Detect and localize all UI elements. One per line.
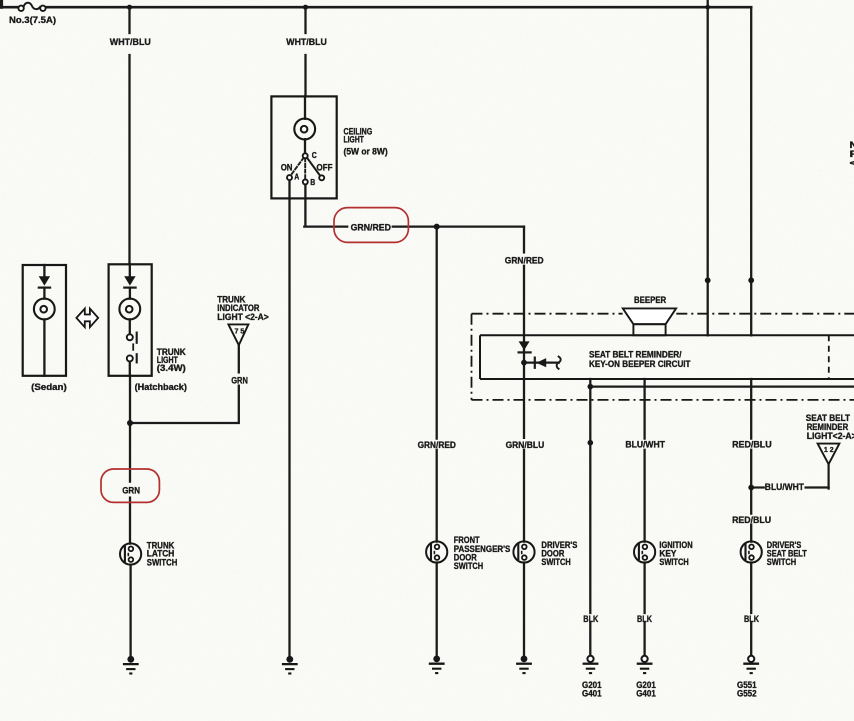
svg-text:(3.4W): (3.4W) [157,363,186,373]
svg-text:7 5: 7 5 [235,327,245,336]
svg-text:BLU/WHT: BLU/WHT [625,440,665,450]
svg-text:LIGHT <2-A>: LIGHT <2-A> [217,312,268,322]
svg-text:WHT/BLU: WHT/BLU [110,37,151,47]
svg-text:BLU/WHT: BLU/WHT [765,482,804,492]
svg-text:BLK: BLK [744,614,759,624]
svg-text:LIGHT: LIGHT [344,135,365,145]
svg-text:(5W or 8W): (5W or 8W) [344,147,388,157]
svg-text:G552: G552 [737,689,757,699]
svg-text:GRN/RED: GRN/RED [505,256,544,266]
svg-text:B: B [310,178,315,187]
svg-text:BLK: BLK [637,614,652,624]
svg-text:LIGHT<2-A>: LIGHT<2-A> [807,431,854,441]
svg-text:SWITCH: SWITCH [541,557,570,567]
svg-text:A: A [294,173,299,182]
svg-text:No.3(7.5A): No.3(7.5A) [9,15,56,25]
svg-text:GRN: GRN [122,485,140,495]
svg-text:BLK: BLK [583,614,598,624]
svg-text:SWITCH: SWITCH [454,561,483,571]
svg-text:RED/BLU: RED/BLU [732,515,771,525]
svg-text:<: < [850,158,854,168]
svg-text:1 2: 1 2 [824,445,834,454]
svg-text:OFF: OFF [317,163,334,173]
svg-text:BEEPER: BEEPER [634,295,667,305]
svg-text:(Sedan): (Sedan) [31,382,67,392]
svg-text:KEY-ON BEEPER CIRCUIT: KEY-ON BEEPER CIRCUIT [589,359,691,369]
svg-text:GRN/BLU: GRN/BLU [506,440,545,450]
svg-text:GRN: GRN [231,375,248,385]
svg-text:SWITCH: SWITCH [659,557,688,567]
svg-text:C: C [312,151,317,160]
svg-text:G401: G401 [636,689,656,699]
svg-text:RED/BLU: RED/BLU [732,440,772,450]
svg-text:SWITCH: SWITCH [147,557,178,567]
svg-text:SWITCH: SWITCH [767,557,796,567]
svg-text:G401: G401 [582,689,602,699]
svg-text:WHT/BLU: WHT/BLU [286,37,327,47]
svg-text:GRN/RED: GRN/RED [418,440,457,450]
svg-text:GRN/RED: GRN/RED [351,223,392,233]
svg-text:(Hatchback): (Hatchback) [135,382,187,392]
svg-text:ON: ON [281,163,293,173]
